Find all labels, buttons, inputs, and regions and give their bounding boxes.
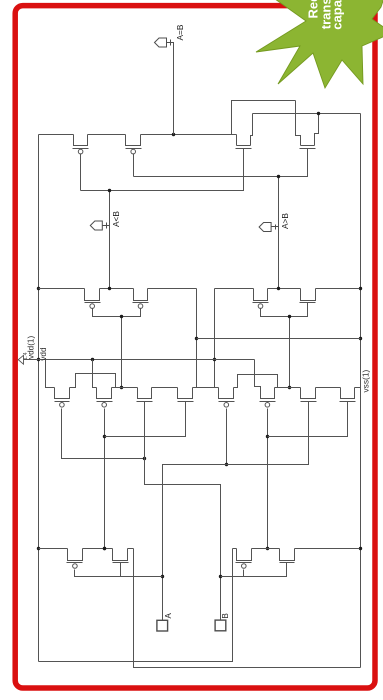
port A=B (155, 38, 174, 47)
pmos B0 (85, 289, 101, 309)
node B2-B3 gate junction (288, 315, 291, 318)
wire C1 bridge over C2 (70, 374, 116, 388)
nmos C6 (301, 388, 317, 402)
wire A<B vertical (109, 191, 111, 289)
wire C3b gate link (105, 402, 186, 437)
wire B0-B1 gate net (93, 309, 141, 388)
wire vdd line (24, 359, 255, 361)
wire row C seg C2-C3 (112, 387, 138, 389)
port A>B (259, 223, 278, 232)
node vdd trunk vdd-line tap (37, 358, 40, 361)
wire C4 gate (226, 409, 228, 465)
wire vdd left trunk (38, 135, 40, 662)
wire vdd drop to C2 (93, 360, 97, 388)
starburst text (305, 0, 344, 30)
node C4 gate junction (225, 463, 228, 466)
svg-text:capaci: capaci (329, 0, 344, 30)
node C5 gate row D tap (266, 547, 269, 550)
wire vss right trunk (360, 114, 362, 668)
pmos C1 (55, 388, 70, 408)
wire row D left rail (39, 548, 134, 550)
port B (input) (215, 620, 226, 631)
wire vss top run (253, 113, 361, 115)
nmos N3 (236, 114, 253, 149)
wire row C seg C3-C3b (152, 387, 178, 389)
wire vdd rail row A (39, 134, 237, 136)
svg-text:B: B (221, 613, 230, 618)
node C6 net D-left tap (161, 575, 164, 578)
wire row C seg C5-C6 (275, 387, 301, 389)
wire C1 vdd riser (46, 360, 55, 388)
node C3 net D-right tap (219, 575, 222, 578)
wire C7 gate link (268, 402, 348, 437)
wire N4 gate (134, 149, 308, 177)
nmos C3 (137, 388, 153, 402)
label A=B (175, 24, 185, 40)
node row D left mid junction (103, 547, 106, 550)
wire row B left drop (197, 289, 219, 388)
nmos N4 (296, 101, 319, 149)
wire row C seg C3b-C4 (193, 387, 219, 389)
svg-text:A: A (164, 613, 173, 619)
wire net N3-N4 top (232, 101, 296, 135)
nmos C7 (340, 388, 356, 402)
pmos B2 (253, 289, 269, 309)
wire C6 gate net to pin A (163, 402, 309, 621)
label A (164, 613, 173, 619)
nmos D4 (280, 549, 295, 563)
nmos D2 (113, 549, 129, 563)
pmos C5 (260, 388, 276, 408)
svg-text:vdd: vdd (39, 347, 48, 361)
wire P2 gate (133, 154, 135, 177)
wire B2-B3 gate net (261, 303, 308, 388)
label A>B (280, 213, 290, 229)
label A<B (111, 211, 121, 227)
wire D3-D4 gate net (221, 563, 287, 577)
label vss(1) (360, 369, 370, 392)
node vss trunk row D tap (359, 547, 362, 550)
wire row B right drop (214, 289, 216, 388)
nmos C3b (178, 388, 194, 402)
node C5 gate link junction (266, 435, 269, 438)
svg-text:A>B: A>B (280, 213, 290, 229)
wire row B right rail (215, 288, 360, 290)
vdd export flag (18, 355, 23, 364)
label vdd(1) (27, 336, 36, 359)
node C1-C3 gate junction (143, 457, 146, 460)
wire A>B vertical (278, 177, 280, 289)
node vdd drop C2 junction (91, 358, 94, 361)
svg-text:vss(1): vss(1) (360, 369, 370, 392)
svg-text:1.4: 1.4 (23, 352, 29, 360)
node vss trunk row B tap (359, 287, 362, 290)
nmos B3 (300, 289, 316, 303)
pmos P2 (126, 135, 142, 154)
pmos D3 (236, 549, 252, 569)
label vdd net (39, 347, 48, 361)
wire P1 gate (80, 154, 82, 191)
wire row D right rail (233, 548, 360, 550)
wire C4 bridge over C5 (234, 375, 278, 388)
wire vdd staircase to C5 (255, 360, 261, 388)
pmos D1 (67, 549, 83, 569)
wire N3 gate (81, 149, 244, 191)
node vdd trunk row D tap (37, 547, 40, 550)
wire row C seg C6-C7 (316, 387, 341, 389)
pmos C2 (97, 388, 113, 408)
wire A=B pin lead (167, 43, 174, 135)
wire C5 gate net (267, 409, 269, 549)
node N4 drain junction (317, 112, 320, 115)
node C2 gate cross link (103, 435, 106, 438)
node vss trunk mid tap (359, 337, 362, 340)
svg-text:A<B: A<B (111, 211, 121, 227)
node vdd trunk row B tap (37, 287, 40, 290)
node A<B gate junction (108, 189, 111, 192)
node B2-B3 row C tap (288, 386, 291, 389)
wire row C seg C7-vss (355, 387, 361, 389)
wire vss mid run (197, 338, 361, 340)
starburst badge (256, 0, 383, 88)
node A<B rail junction (108, 287, 111, 290)
node C2 gate row D tap (103, 547, 106, 550)
node B gates row C tap (120, 386, 123, 389)
svg-text:A=B: A=B (175, 24, 185, 40)
pmos P1 (73, 135, 89, 154)
wire C2 gate net (104, 409, 106, 549)
node A>B gate junction (277, 175, 280, 178)
node row B drop vdd tap (213, 358, 216, 361)
wire row D left corner drop (134, 549, 361, 668)
wire row D right corner drop (39, 549, 233, 662)
label B (221, 613, 230, 618)
node A=B output junction (172, 133, 175, 136)
wire D1-D2 gate net (75, 563, 163, 577)
node A>B rail junction (277, 287, 280, 290)
wire C3 gate net to pin B (145, 402, 221, 621)
wire row B left rail (39, 288, 197, 290)
port A (input) (157, 620, 168, 631)
node vss mid branch (195, 337, 198, 340)
node B0-B1 gate junction (120, 315, 123, 318)
pmos C4 (219, 388, 235, 408)
pmos B1 (133, 289, 149, 309)
label vdd flag tag (23, 352, 29, 360)
wire C1 gate net (62, 409, 144, 459)
port A<B (90, 221, 109, 230)
